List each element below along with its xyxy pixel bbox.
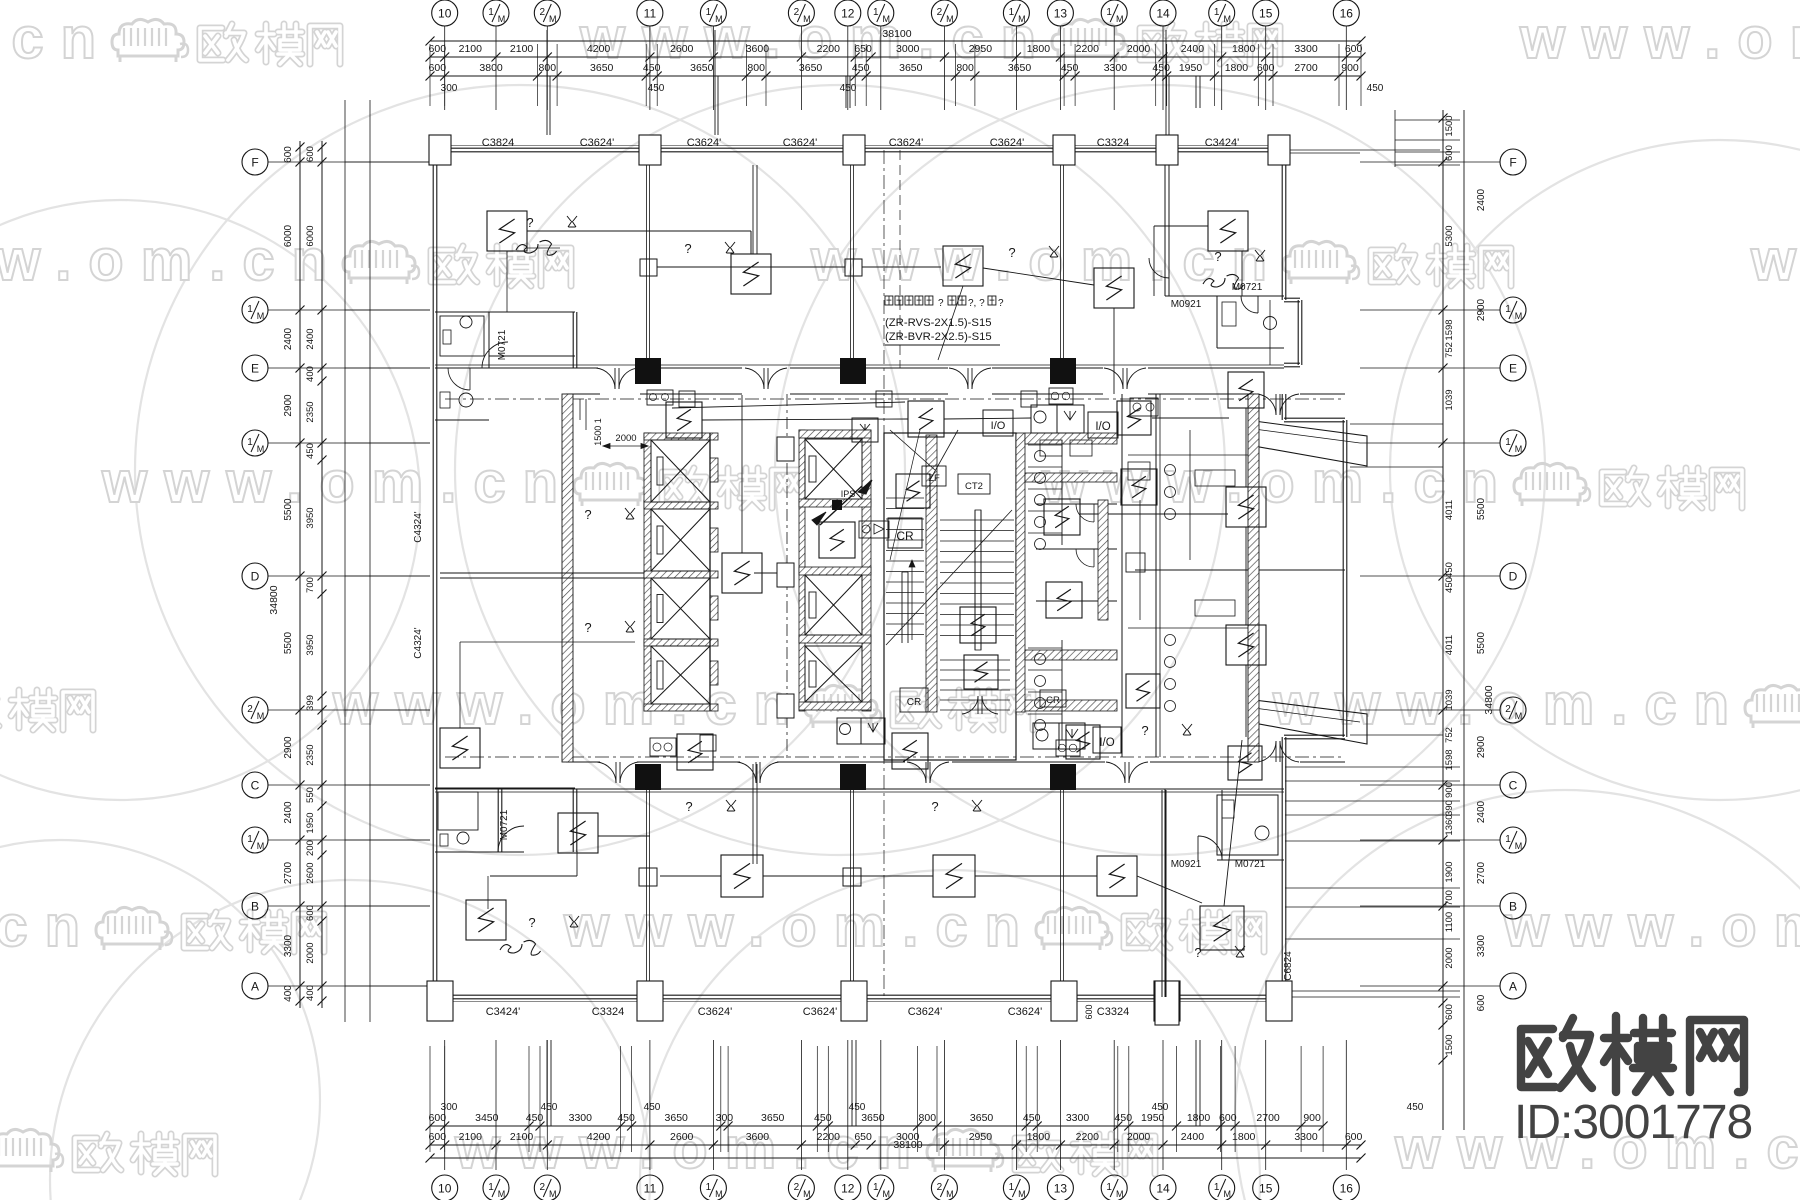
svg-text:1: 1 <box>873 7 879 18</box>
svg-text:1: 1 <box>488 7 494 18</box>
svg-text:B: B <box>251 900 259 914</box>
svg-text:1: 1 <box>247 304 253 315</box>
svg-text:www.om.cn: www.om.cn <box>0 894 97 959</box>
svg-text:2200: 2200 <box>817 43 841 55</box>
svg-text:13: 13 <box>1054 1182 1068 1196</box>
svg-text:C3624': C3624' <box>687 137 722 149</box>
svg-text:600: 600 <box>1345 1131 1363 1143</box>
svg-text:1: 1 <box>1009 7 1015 18</box>
svg-text:600: 600 <box>1345 43 1363 55</box>
svg-text:2950: 2950 <box>969 43 993 55</box>
svg-text:C3324: C3324 <box>1097 1006 1129 1018</box>
svg-text:2400: 2400 <box>283 327 294 350</box>
svg-text:450: 450 <box>1367 83 1384 94</box>
svg-text:600: 600 <box>1476 994 1487 1011</box>
svg-text:3650: 3650 <box>899 62 923 74</box>
svg-text:700: 700 <box>1444 890 1455 906</box>
svg-text:2100: 2100 <box>510 43 534 55</box>
svg-text:400: 400 <box>283 985 294 1002</box>
svg-text:?: ? <box>1194 945 1201 960</box>
svg-text:M0921: M0921 <box>1171 299 1202 310</box>
svg-text:2: 2 <box>937 7 943 18</box>
svg-text:1950: 1950 <box>1179 62 1203 74</box>
svg-text:3300: 3300 <box>1294 1131 1318 1143</box>
svg-text:M: M <box>715 1189 723 1199</box>
svg-text:C3324: C3324 <box>1097 137 1129 149</box>
svg-text:450: 450 <box>1444 562 1455 578</box>
svg-text:E: E <box>1509 362 1517 376</box>
svg-text:1: 1 <box>873 1182 879 1193</box>
svg-text:2: 2 <box>1505 704 1511 715</box>
svg-text:2600: 2600 <box>670 43 694 55</box>
svg-text:A: A <box>251 980 259 994</box>
svg-text:5300: 5300 <box>1444 225 1455 246</box>
svg-text:1: 1 <box>1214 7 1220 18</box>
svg-text:5500: 5500 <box>283 498 294 521</box>
svg-text:200: 200 <box>305 840 316 856</box>
svg-text:16: 16 <box>1340 7 1354 21</box>
svg-text:B: B <box>1509 900 1517 914</box>
svg-text:38100: 38100 <box>882 28 911 40</box>
svg-text:2: 2 <box>540 1182 546 1193</box>
svg-text:M: M <box>803 1189 811 1199</box>
svg-text:M0721: M0721 <box>499 809 510 840</box>
svg-text:2000: 2000 <box>615 433 636 444</box>
svg-text:M: M <box>1223 14 1231 24</box>
svg-text:450: 450 <box>1407 1102 1424 1113</box>
svg-text:34800: 34800 <box>268 585 280 614</box>
svg-text:2600: 2600 <box>670 1131 694 1143</box>
svg-text:M: M <box>1018 1189 1026 1199</box>
svg-text:2400: 2400 <box>1181 43 1205 55</box>
svg-text:M: M <box>803 14 811 24</box>
svg-text:M: M <box>1018 14 1026 24</box>
svg-text:10: 10 <box>438 7 452 21</box>
svg-text:10: 10 <box>438 1182 452 1196</box>
svg-text:1598: 1598 <box>1444 749 1455 770</box>
svg-text:3650: 3650 <box>761 1112 785 1124</box>
svg-text:450: 450 <box>849 1102 866 1113</box>
svg-text:(ZR-BVR-2X2.5)-S15: (ZR-BVR-2X2.5)-S15 <box>885 331 992 343</box>
svg-text:3650: 3650 <box>1008 62 1032 74</box>
svg-text:?: ? <box>584 620 591 635</box>
svg-text:F: F <box>1509 156 1516 170</box>
svg-text:M: M <box>257 841 265 851</box>
svg-text:16: 16 <box>1340 1182 1354 1196</box>
svg-text:900: 900 <box>1444 782 1455 798</box>
svg-text:4200: 4200 <box>587 1131 611 1143</box>
svg-text:5500: 5500 <box>283 631 294 654</box>
svg-text:M: M <box>1515 311 1523 321</box>
svg-text:2000: 2000 <box>1127 1131 1151 1143</box>
svg-text:900: 900 <box>1303 1112 1321 1124</box>
svg-text:300: 300 <box>441 83 458 94</box>
svg-text:2: 2 <box>794 1182 800 1193</box>
svg-text:300: 300 <box>716 1112 734 1124</box>
svg-text:CR: CR <box>1046 695 1060 706</box>
svg-text:M0721: M0721 <box>1232 282 1263 293</box>
svg-text:ID:3001778: ID:3001778 <box>1514 1096 1752 1149</box>
svg-text:C3624': C3624' <box>698 1006 733 1018</box>
svg-text:1950: 1950 <box>1141 1112 1165 1124</box>
svg-text:E: E <box>251 362 259 376</box>
svg-text:1: 1 <box>488 1182 494 1193</box>
svg-text:2000: 2000 <box>305 942 316 963</box>
svg-text:M: M <box>1515 444 1523 454</box>
svg-text:3650: 3650 <box>861 1112 885 1124</box>
svg-text:600: 600 <box>1444 145 1455 161</box>
svg-text:M: M <box>257 311 265 321</box>
svg-text:400: 400 <box>305 366 316 382</box>
svg-text:3950: 3950 <box>305 634 316 655</box>
svg-text:1: 1 <box>1505 437 1511 448</box>
svg-text:www.om.cn: www.om.cn <box>1503 894 1800 959</box>
svg-text:M: M <box>946 1189 954 1199</box>
svg-text:C3624': C3624' <box>783 137 818 149</box>
svg-text:12: 12 <box>841 7 855 21</box>
svg-text:2950: 2950 <box>969 1131 993 1143</box>
svg-text:450: 450 <box>541 1102 558 1113</box>
svg-text:3800: 3800 <box>479 62 503 74</box>
svg-text:399: 399 <box>305 695 316 711</box>
svg-text:M: M <box>257 444 265 454</box>
svg-text:?: ? <box>684 241 691 256</box>
svg-text:1800: 1800 <box>1232 43 1256 55</box>
svg-text:3300: 3300 <box>283 934 294 957</box>
svg-text:2100: 2100 <box>459 1131 483 1143</box>
svg-text:2350: 2350 <box>305 744 316 765</box>
svg-text:900: 900 <box>1341 62 1359 74</box>
svg-text:2100: 2100 <box>510 1131 534 1143</box>
svg-text:C3624': C3624' <box>1008 1006 1043 1018</box>
svg-text:I/O: I/O <box>991 420 1006 432</box>
svg-text:M: M <box>1515 711 1523 721</box>
svg-text:2600: 2600 <box>305 862 316 883</box>
svg-text:14: 14 <box>1156 7 1170 21</box>
svg-text:800: 800 <box>747 62 765 74</box>
svg-text:?: ? <box>584 507 591 522</box>
svg-text:1360: 1360 <box>1444 814 1455 835</box>
svg-text:C4324': C4324' <box>413 511 424 542</box>
svg-text:650: 650 <box>854 1131 872 1143</box>
svg-text:450: 450 <box>1115 1112 1133 1124</box>
svg-text:2400: 2400 <box>1476 800 1487 823</box>
svg-text:1500: 1500 <box>1444 1034 1455 1055</box>
svg-text:C: C <box>1509 779 1518 793</box>
svg-text:4200: 4200 <box>587 43 611 55</box>
svg-text:M: M <box>883 14 891 24</box>
svg-text:2900: 2900 <box>283 736 294 759</box>
svg-text:?: ? <box>1214 249 1221 264</box>
svg-text:2700: 2700 <box>283 861 294 884</box>
svg-text:14: 14 <box>1156 1182 1170 1196</box>
svg-text:13: 13 <box>1054 7 1068 21</box>
svg-text:M: M <box>946 14 954 24</box>
svg-text:1039: 1039 <box>1444 389 1455 410</box>
svg-text:?: ? <box>528 915 535 930</box>
svg-text:?, ?: ?, ? <box>968 298 985 309</box>
svg-text:752: 752 <box>1444 342 1455 358</box>
svg-text:www.om.cn: www.om.cn <box>1519 6 1800 71</box>
svg-text:1800: 1800 <box>1027 43 1051 55</box>
svg-text:1800: 1800 <box>1225 62 1249 74</box>
svg-text:450: 450 <box>526 1112 544 1124</box>
svg-text:800: 800 <box>956 62 974 74</box>
svg-text:450: 450 <box>643 62 661 74</box>
svg-text:3300: 3300 <box>1294 43 1318 55</box>
svg-text:2350: 2350 <box>305 401 316 422</box>
svg-text:3450: 3450 <box>475 1112 499 1124</box>
svg-text:M: M <box>1116 14 1124 24</box>
svg-text:2100: 2100 <box>459 43 483 55</box>
svg-text:D: D <box>1509 570 1518 584</box>
svg-text:C3624': C3624' <box>580 137 615 149</box>
svg-text:800: 800 <box>919 1112 937 1124</box>
svg-text:1800: 1800 <box>1232 1131 1256 1143</box>
svg-text:390: 390 <box>1444 800 1455 816</box>
svg-text:D: D <box>251 570 260 584</box>
svg-text:4011: 4011 <box>1444 635 1455 655</box>
svg-text:2: 2 <box>247 704 253 715</box>
svg-text:3300: 3300 <box>1104 62 1128 74</box>
svg-text:M: M <box>257 711 265 721</box>
svg-text:C3324: C3324 <box>592 1006 624 1018</box>
svg-text:1: 1 <box>1009 1182 1015 1193</box>
svg-text:300: 300 <box>441 1102 458 1113</box>
svg-text:34800: 34800 <box>1483 685 1495 714</box>
svg-text:600: 600 <box>429 62 447 74</box>
svg-text:1800: 1800 <box>1027 1131 1051 1143</box>
svg-text:M0721: M0721 <box>1235 859 1266 870</box>
svg-text:2400: 2400 <box>283 801 294 824</box>
svg-text:C3824: C3824 <box>482 137 514 149</box>
svg-text:2900: 2900 <box>1476 298 1487 321</box>
svg-text:3600: 3600 <box>746 1131 770 1143</box>
svg-text:3300: 3300 <box>569 1112 593 1124</box>
svg-text:F: F <box>251 156 258 170</box>
svg-text:?: ? <box>938 298 944 309</box>
svg-text:3650: 3650 <box>690 62 714 74</box>
svg-text:I/O: I/O <box>1095 421 1110 433</box>
svg-text:1950: 1950 <box>305 812 316 833</box>
svg-text:2200: 2200 <box>1076 43 1100 55</box>
svg-text:CR: CR <box>907 697 921 708</box>
svg-text:1: 1 <box>1106 1182 1112 1193</box>
svg-text:1800: 1800 <box>1187 1112 1211 1124</box>
svg-text:M: M <box>1223 1189 1231 1199</box>
svg-text:1039: 1039 <box>1444 689 1455 710</box>
svg-text:?: ? <box>1008 245 1015 260</box>
svg-text:2000: 2000 <box>1127 43 1151 55</box>
svg-text:2900: 2900 <box>283 394 294 417</box>
svg-text:M0721: M0721 <box>497 329 508 360</box>
svg-text:450: 450 <box>1061 62 1079 74</box>
svg-text:1598: 1598 <box>1444 319 1455 340</box>
svg-text:450: 450 <box>814 1112 832 1124</box>
svg-text:600: 600 <box>1444 1004 1455 1020</box>
svg-text:1900: 1900 <box>1444 861 1455 882</box>
svg-text:5500: 5500 <box>1476 497 1487 520</box>
svg-text:6000: 6000 <box>305 225 316 246</box>
svg-text:11: 11 <box>644 7 657 21</box>
svg-text:2400: 2400 <box>1476 188 1487 211</box>
svg-text:CT2: CT2 <box>965 481 983 492</box>
svg-text:2200: 2200 <box>1076 1131 1100 1143</box>
svg-text:3650: 3650 <box>665 1112 689 1124</box>
svg-text:450: 450 <box>1152 1102 1169 1113</box>
svg-text:?: ? <box>685 799 692 814</box>
svg-text:2700: 2700 <box>1476 861 1487 884</box>
svg-text:600: 600 <box>283 146 294 163</box>
svg-text:3650: 3650 <box>590 62 614 74</box>
svg-text:C3624': C3624' <box>908 1006 943 1018</box>
svg-text:M: M <box>498 14 506 24</box>
svg-text:M: M <box>549 14 557 24</box>
svg-text:1: 1 <box>247 437 253 448</box>
svg-text:2400: 2400 <box>305 328 316 349</box>
svg-text:C3624': C3624' <box>889 137 924 149</box>
svg-text:C3624': C3624' <box>990 137 1025 149</box>
svg-text:450: 450 <box>1023 1112 1041 1124</box>
svg-text:C6824: C6824 <box>1283 951 1294 981</box>
svg-text:11: 11 <box>644 1182 657 1196</box>
svg-text:M: M <box>883 1189 891 1199</box>
svg-text:650: 650 <box>854 43 872 55</box>
svg-text:C4324': C4324' <box>413 627 424 658</box>
svg-text:?: ? <box>526 215 533 230</box>
svg-text:1: 1 <box>247 834 253 845</box>
svg-text:450: 450 <box>1152 62 1170 74</box>
svg-text:550: 550 <box>305 787 316 803</box>
svg-text:3000: 3000 <box>896 43 920 55</box>
svg-text:?: ? <box>1141 723 1148 738</box>
svg-text:1: 1 <box>1214 1182 1220 1193</box>
svg-text:450: 450 <box>1444 577 1455 593</box>
svg-text:2700: 2700 <box>1294 62 1318 74</box>
svg-text:2: 2 <box>937 1182 943 1193</box>
svg-text:600: 600 <box>429 1131 447 1143</box>
svg-text:3650: 3650 <box>799 62 823 74</box>
svg-text:450: 450 <box>644 1102 661 1113</box>
svg-text:1: 1 <box>706 1182 712 1193</box>
svg-text:3650: 3650 <box>970 1112 994 1124</box>
svg-text:4011: 4011 <box>1444 500 1455 520</box>
svg-text:450: 450 <box>840 83 857 94</box>
svg-text:1100: 1100 <box>1444 912 1455 932</box>
svg-text:2700: 2700 <box>1256 1112 1280 1124</box>
svg-text:C: C <box>251 779 260 793</box>
svg-text:www.om.cn: www.om.cn <box>101 450 575 515</box>
svg-text:450: 450 <box>852 62 870 74</box>
svg-text:?: ? <box>998 298 1004 309</box>
svg-text:?: ? <box>931 799 938 814</box>
svg-text:5500: 5500 <box>1476 631 1487 654</box>
svg-text:1: 1 <box>1505 834 1511 845</box>
svg-text:www.om.cn: www.om.cn <box>563 894 1037 959</box>
svg-text:1: 1 <box>706 7 712 18</box>
svg-text:2400: 2400 <box>1181 1131 1205 1143</box>
svg-text:752: 752 <box>1444 727 1455 743</box>
svg-text:M: M <box>498 1189 506 1199</box>
svg-text:15: 15 <box>1259 1182 1273 1196</box>
svg-text:12: 12 <box>841 1182 855 1196</box>
svg-text:M0921: M0921 <box>1171 859 1202 870</box>
svg-text:600: 600 <box>305 905 316 921</box>
svg-text:3300: 3300 <box>1066 1112 1090 1124</box>
svg-text:(ZR-RVS-2X1.5)-S15: (ZR-RVS-2X1.5)-S15 <box>885 317 992 329</box>
svg-text:C3624': C3624' <box>803 1006 838 1018</box>
svg-text:700: 700 <box>305 577 316 593</box>
svg-text:A: A <box>1509 980 1517 994</box>
svg-text:www.om.cn: www.om.cn <box>1750 228 1800 293</box>
svg-text:1: 1 <box>1106 7 1112 18</box>
svg-text:C3424': C3424' <box>486 1006 521 1018</box>
svg-text:600: 600 <box>429 43 447 55</box>
svg-text:2900: 2900 <box>1476 735 1487 758</box>
svg-text:15: 15 <box>1259 7 1273 21</box>
svg-text:3950: 3950 <box>305 507 316 528</box>
svg-text:M: M <box>1515 841 1523 851</box>
svg-text:C3424': C3424' <box>1205 137 1240 149</box>
svg-text:M: M <box>715 14 723 24</box>
svg-text:1: 1 <box>1505 304 1511 315</box>
svg-text:450: 450 <box>617 1112 635 1124</box>
svg-text:400: 400 <box>305 985 316 1001</box>
svg-text:6000: 6000 <box>283 224 294 247</box>
svg-text:600: 600 <box>305 146 316 162</box>
svg-text:M: M <box>549 1189 557 1199</box>
svg-text:CR: CR <box>896 529 914 543</box>
svg-text:I/O: I/O <box>1099 737 1114 749</box>
svg-text:2000: 2000 <box>1444 947 1455 968</box>
svg-text:2: 2 <box>794 7 800 18</box>
svg-text:600: 600 <box>429 1112 447 1124</box>
svg-text:M: M <box>1116 1189 1124 1199</box>
svg-text:www.om.cn: www.om.cn <box>0 6 113 71</box>
svg-text:600: 600 <box>1084 1004 1094 1019</box>
svg-text:1500: 1500 <box>1444 115 1455 136</box>
svg-text:2: 2 <box>540 7 546 18</box>
svg-text:1500 1: 1500 1 <box>593 418 603 446</box>
svg-text:38100: 38100 <box>893 1139 922 1151</box>
svg-text:450: 450 <box>305 443 316 459</box>
svg-text:3300: 3300 <box>1476 934 1487 957</box>
svg-text:www.om.cn: www.om.cn <box>810 228 1284 293</box>
